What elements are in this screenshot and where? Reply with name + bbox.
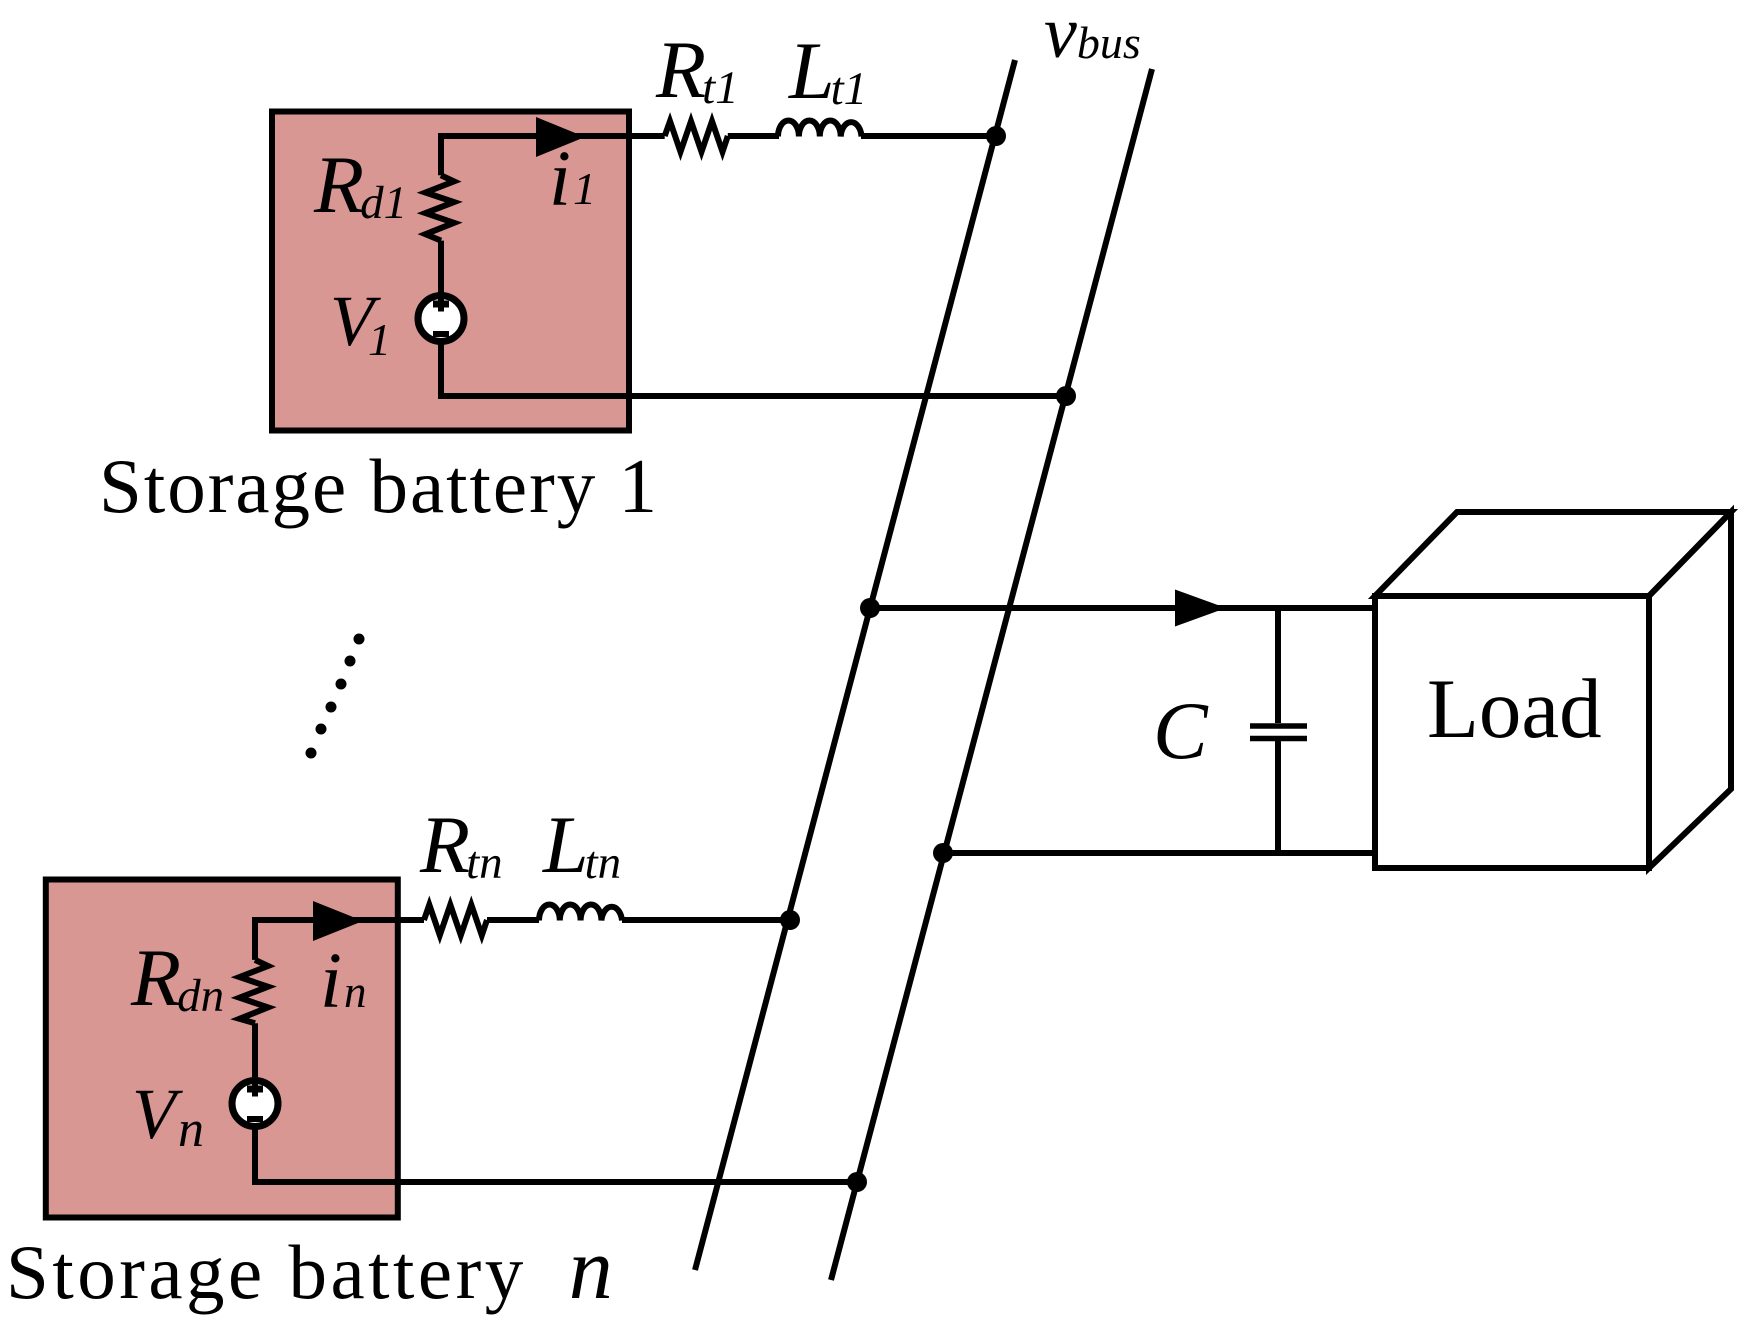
capacitor C bottom lead	[1275, 741, 1281, 853]
wire battery1 bottom to bus node	[441, 393, 1066, 399]
svg-text:Ltn: Ltn	[542, 799, 621, 890]
wire batteryn bottom to bus node	[255, 1179, 857, 1185]
current arrow load	[1175, 590, 1226, 627]
storage battery 1 box	[272, 112, 629, 431]
capacitor C top lead	[1275, 608, 1281, 723]
svg-text:Storage battery n: Storage battery n	[6, 1221, 613, 1318]
ellipsis dots	[306, 634, 365, 759]
node load top on bus	[860, 598, 880, 618]
resistor Rd1	[426, 175, 455, 240]
wire Ltn to bus	[622, 917, 790, 923]
svg-text:Load: Load	[1427, 662, 1602, 756]
voltage source Vn	[232, 1080, 278, 1127]
wire batteryn internal top vertical	[255, 920, 424, 960]
bus line vbus left	[695, 60, 1015, 1270]
wire Rd1 to V1	[438, 241, 444, 297]
capacitor C plates	[1250, 726, 1307, 739]
svg-text:Storage battery 1: Storage battery 1	[99, 443, 659, 529]
resistor Rtn	[424, 905, 487, 936]
svg-text:C: C	[1153, 685, 1209, 776]
load box right face	[1649, 512, 1731, 868]
wire load bottom	[943, 850, 1375, 856]
inductor Ltn	[539, 904, 622, 920]
wire V1 to bottom	[438, 343, 444, 399]
node batteryn top on bus	[780, 910, 800, 930]
svg-text:vbus: vbus	[1044, 0, 1141, 74]
svg-text:Lt1: Lt1	[788, 25, 867, 116]
wire Rdn to Vn	[252, 1023, 258, 1082]
voltage source V1	[418, 295, 464, 342]
resistor Rdn	[240, 960, 269, 1023]
node load bottom on bus	[933, 843, 953, 863]
node battery1 bottom on bus	[1056, 386, 1076, 406]
wire battery1 internal top vertical	[441, 136, 665, 175]
load box top face	[1375, 512, 1731, 596]
wire Rt1 to Lt1	[728, 133, 779, 139]
bus line vbus right	[831, 69, 1152, 1280]
current arrow i1	[536, 117, 585, 157]
wire load top	[870, 605, 1375, 611]
resistor Rt1	[665, 121, 728, 152]
storage battery n box	[46, 880, 398, 1218]
inductor Lt1	[778, 120, 862, 136]
node battery1 top on bus	[986, 126, 1006, 146]
load box front face	[1375, 596, 1649, 868]
wire Vn to bottom	[252, 1128, 258, 1185]
wire Lt1 to bus	[861, 133, 996, 139]
svg-text:Rtn: Rtn	[419, 799, 503, 890]
wire Rtn to Ltn	[487, 917, 539, 923]
svg-text:Rt1: Rt1	[655, 24, 739, 115]
node batteryn bottom on bus	[847, 1172, 867, 1192]
current arrow in	[313, 901, 363, 941]
